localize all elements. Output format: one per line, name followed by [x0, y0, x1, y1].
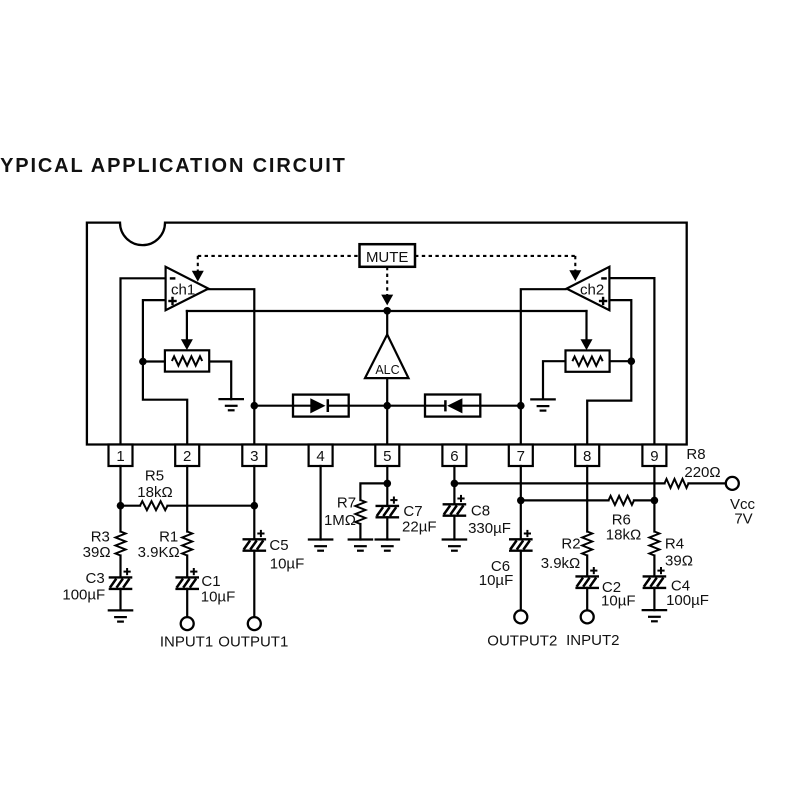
svg-text:ch2: ch2 [580, 281, 604, 298]
wire ALC top stem [386, 311, 388, 335]
wire diode D1 to ALC node [349, 405, 388, 407]
wire ch2 non-inverting input path to pin8 [587, 300, 631, 444]
junction node ALC bottom [383, 402, 391, 410]
pin 7 box [509, 445, 533, 467]
wire node pin3 to diode D1 [254, 405, 293, 407]
ground (C8) [442, 540, 468, 551]
capacitor C6 [509, 530, 533, 551]
svg-text:22µF: 22µF [402, 518, 437, 535]
terminal INPUT1 [181, 617, 194, 630]
junction node pin5-R7 [384, 480, 392, 488]
svg-text:INPUT2: INPUT2 [566, 632, 619, 649]
svg-text:1: 1 [116, 448, 124, 465]
resistor R5 [140, 501, 168, 510]
wire pin5 node to R7 [360, 483, 387, 500]
MUTE control box [360, 244, 416, 267]
wire R1 to C1 [186, 556, 188, 578]
wire ch1 output to pin3 [208, 289, 254, 444]
junction node R5 right [251, 502, 259, 510]
svg-text:R5: R5 [145, 467, 164, 484]
diode D1 [293, 398, 349, 413]
svg-text:C5: C5 [269, 537, 288, 554]
svg-text:10µF: 10µF [601, 593, 636, 610]
svg-text:R8: R8 [686, 446, 705, 463]
wire R3 to C3 [119, 556, 121, 578]
junction node VR1 left [139, 358, 147, 366]
capacitor C8 [443, 495, 467, 516]
wire R8 to Vcc [689, 482, 726, 484]
capacitor C5 [243, 530, 267, 551]
terminal OUTPUT1 [248, 617, 261, 630]
svg-text:R7: R7 [337, 494, 356, 511]
wire diode D2 to pin7 node [480, 405, 521, 407]
ground (R7) [348, 540, 374, 551]
arrowhead mute to ch2 [569, 270, 581, 281]
capacitor C7 [376, 497, 400, 518]
ground (VR1 arm) [218, 399, 244, 410]
svg-text:10µF: 10µF [201, 589, 236, 606]
pin 8 box [575, 445, 599, 467]
dashed mute stem to ALC [386, 267, 388, 296]
wire pot2 arrow stem [585, 311, 587, 341]
svg-text:39Ω: 39Ω [665, 552, 693, 569]
svg-text:TYPICAL APPLICATION CIRCUIT: TYPICAL APPLICATION CIRCUIT [0, 155, 347, 177]
svg-text:C3: C3 [86, 570, 105, 587]
svg-text:10µF: 10µF [270, 555, 305, 572]
dashed mute line to ch2 [415, 255, 575, 257]
capacitor C3 [109, 568, 133, 589]
svg-text:7V: 7V [734, 510, 752, 527]
wire pin3 down [253, 466, 255, 539]
svg-text:18kΩ: 18kΩ [137, 484, 172, 501]
wire pin9 down [653, 466, 655, 532]
wire C2 to INPUT2 [586, 588, 588, 611]
ground (C4) [642, 610, 668, 621]
capacitor C4 [643, 567, 667, 588]
pin 9 box [642, 445, 666, 467]
svg-text:3: 3 [250, 448, 258, 465]
terminal INPUT2 [581, 610, 594, 623]
svg-text:C7: C7 [403, 503, 422, 520]
svg-text:OUTPUT2: OUTPUT2 [487, 633, 557, 650]
svg-text:ch1: ch1 [171, 281, 195, 298]
svg-text:1MΩ: 1MΩ [324, 512, 356, 529]
wire pin2 down [186, 466, 188, 532]
diode D1 box [293, 395, 349, 417]
junction node VR2 right [628, 357, 636, 365]
wire ch2 output to pin7 [521, 289, 566, 444]
svg-text:6: 6 [450, 448, 458, 465]
ground (C3) [108, 610, 134, 621]
svg-text:C8: C8 [471, 503, 490, 520]
svg-text:8: 8 [583, 448, 591, 465]
pin 4 box [309, 445, 333, 467]
svg-text:220Ω: 220Ω [684, 464, 720, 481]
terminal OUTPUT2 [514, 610, 527, 623]
svg-text:MUTE: MUTE [366, 249, 409, 266]
svg-text:R4: R4 [665, 536, 684, 553]
ALC block U2 [365, 335, 409, 379]
svg-text:330µF: 330µF [468, 520, 511, 537]
feedback resistor box VR1 (ch1) [165, 350, 209, 371]
wire C8 to ground [453, 516, 455, 540]
wire ALC node to diode D2 [387, 405, 425, 407]
capacitor C2 [575, 567, 599, 588]
pin 5 box [375, 445, 399, 467]
wire ch1 non-inverting input path to pin2 [143, 300, 187, 444]
resistor R2 [582, 532, 592, 556]
wire pin7 node to R6 [521, 499, 609, 501]
wire pin9 to ch2 inverting input [609, 278, 654, 444]
wire pot1 left arm to node [143, 360, 165, 362]
svg-text:10µF: 10µF [479, 572, 514, 589]
wire R5 to pin3 node [168, 505, 255, 507]
svg-text:5: 5 [383, 448, 391, 465]
wire C1 to INPUT1 [186, 589, 188, 617]
svg-text:100µF: 100µF [666, 592, 709, 609]
wire pin5 down [386, 466, 388, 506]
wire C6 to OUTPUT2 [520, 551, 522, 611]
svg-text:3.9KΩ: 3.9KΩ [138, 544, 180, 561]
wire pin6 down [453, 466, 455, 504]
arrowhead mute to ALC node [381, 295, 393, 306]
junction node pin3-D1 [251, 402, 259, 410]
resistor R8 [665, 479, 689, 488]
arrowhead into VR2 [581, 339, 593, 350]
wire pot2 left arm to ground [543, 361, 566, 399]
terminal Vcc [726, 477, 739, 490]
svg-text:3.9kΩ: 3.9kΩ [541, 555, 581, 572]
svg-text:39Ω: 39Ω [83, 544, 111, 561]
svg-text:100µF: 100µF [62, 587, 105, 604]
wire pin1 to ch1 inverting input [121, 278, 166, 444]
svg-text:7: 7 [517, 448, 525, 465]
resistor element inside VR1 [172, 356, 202, 365]
wire feedback bus top [187, 310, 587, 312]
wire supply rail to R8 [454, 482, 664, 484]
svg-text:OUTPUT1: OUTPUT1 [218, 633, 288, 650]
wire pin8 down [586, 466, 588, 532]
op-amp ch2 [567, 267, 610, 310]
ground (VR2 arm) [530, 399, 556, 410]
junction node ALC top / mute [383, 307, 391, 315]
ground (pin4) [308, 540, 334, 551]
resistor R1 [182, 532, 192, 556]
svg-text:9: 9 [650, 448, 658, 465]
svg-text:2: 2 [183, 448, 191, 465]
wire R6 to pin9 node [634, 499, 654, 501]
wire R2 to C2 [586, 556, 588, 577]
junction node R5 left [117, 502, 125, 510]
resistor R3 [116, 532, 126, 556]
capacitor C1 [175, 568, 199, 589]
wire pot1 right arm to ground [209, 362, 231, 400]
resistor R7 [355, 500, 365, 524]
arrowhead mute to ch1 [192, 271, 204, 282]
diode D2 box [425, 395, 480, 417]
ground (C7) [375, 540, 401, 551]
pin 1 box [109, 445, 133, 467]
junction node R6 right / pin9 [651, 497, 659, 505]
pin 6 box [442, 445, 466, 467]
diode D2 [425, 398, 480, 413]
wire C4 to ground [653, 588, 655, 610]
IC body U1 outline with index notch [87, 223, 687, 445]
feedback resistor box VR2 (ch2) [566, 350, 610, 371]
wire C3 to ground [119, 589, 121, 611]
dashed mute stem ch1 [197, 256, 199, 272]
junction node pin7-R6 [517, 497, 525, 505]
resistor element inside VR2 [572, 357, 602, 366]
resistor R6 [609, 496, 635, 505]
svg-text:INPUT1: INPUT1 [160, 633, 213, 650]
svg-text:4: 4 [316, 448, 324, 465]
wire pin7 down [520, 466, 522, 539]
dashed mute line to ch1 [198, 255, 360, 257]
dashed mute stem ch2 [574, 256, 576, 271]
wire C5 to OUTPUT1 [253, 551, 255, 618]
svg-text:18kΩ: 18kΩ [606, 527, 641, 544]
wire ALC bottom to pin5 [386, 378, 388, 444]
svg-text:R2: R2 [561, 536, 580, 553]
svg-text:ALC: ALC [375, 363, 399, 377]
wire R7 to ground [359, 524, 361, 540]
wire pin1 node to R5 [121, 505, 141, 507]
op-amp ch1 [166, 267, 209, 310]
wire R4 to C4 [653, 556, 655, 577]
wire pot2 right arm to node [610, 360, 632, 362]
arrowhead into VR1 [181, 339, 193, 350]
junction node pin7-D2 [517, 402, 525, 410]
pin 2 box [175, 445, 199, 467]
resistor R4 [649, 532, 659, 556]
wire pot1 arrow stem [186, 311, 188, 341]
junction node pin6 rail [451, 480, 459, 488]
pin 3 box [242, 445, 266, 467]
wire C7 to ground [386, 517, 388, 539]
wire pin4 down [320, 466, 322, 540]
wire pin1 down [119, 466, 121, 532]
